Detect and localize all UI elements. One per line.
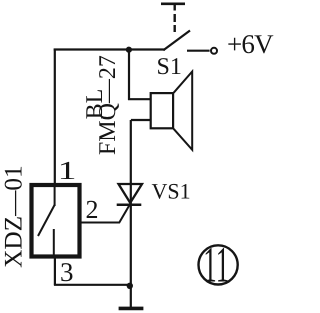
node junction dot top: [126, 47, 132, 53]
vibration switch contact from pin 1 inside box: [54, 186, 56, 206]
svg-text:VS1: VS1: [152, 179, 191, 204]
node junction dot bottom: [127, 283, 133, 289]
open terminal circle: [211, 48, 217, 54]
wire from right contact of S1: [187, 50, 210, 52]
thyristor VS1 cathode bar: [117, 204, 142, 207]
svg-text:XDZ—01: XDZ—01: [0, 165, 27, 268]
wire down to speaker top terminal: [128, 50, 130, 101]
figure number circle: [199, 245, 238, 284]
pushbutton actuator stem: [173, 4, 175, 11]
wire bottom horizontal to node: [54, 284, 131, 286]
wire speaker bottom stub: [131, 119, 151, 121]
svg-text:3: 3: [60, 257, 74, 287]
wire left vertical to pin 1: [54, 49, 56, 185]
wire main vertical to thyristor and ground: [130, 120, 132, 308]
thyristor VS1 triangle: [119, 184, 143, 203]
switch S1 lever: [163, 31, 190, 51]
wire speaker top stub: [128, 98, 151, 100]
svg-text:+6V: +6V: [227, 29, 274, 59]
pushbutton actuator dashed link: [173, 14, 175, 32]
svg-text:11: 11: [203, 236, 229, 292]
vibration switch contact to pin 3 inside box: [53, 229, 55, 258]
speaker BL cone: [174, 72, 193, 150]
wire pin 3 down: [54, 257, 56, 285]
pushbutton actuator bar of S1: [161, 2, 185, 5]
ground bar: [119, 307, 144, 311]
thyristor VS1 gate wire: [80, 205, 130, 223]
svg-text:FMQ—27: FMQ—27: [95, 55, 121, 155]
vibration switch pendulum lever: [38, 205, 55, 237]
svg-text:2: 2: [86, 195, 99, 224]
speaker BL frame: [151, 93, 173, 128]
svg-text:S1: S1: [157, 54, 182, 80]
XDZ-01 module box: [32, 185, 80, 257]
wire top horizontal: [54, 48, 165, 50]
svg-text:1: 1: [58, 156, 77, 185]
